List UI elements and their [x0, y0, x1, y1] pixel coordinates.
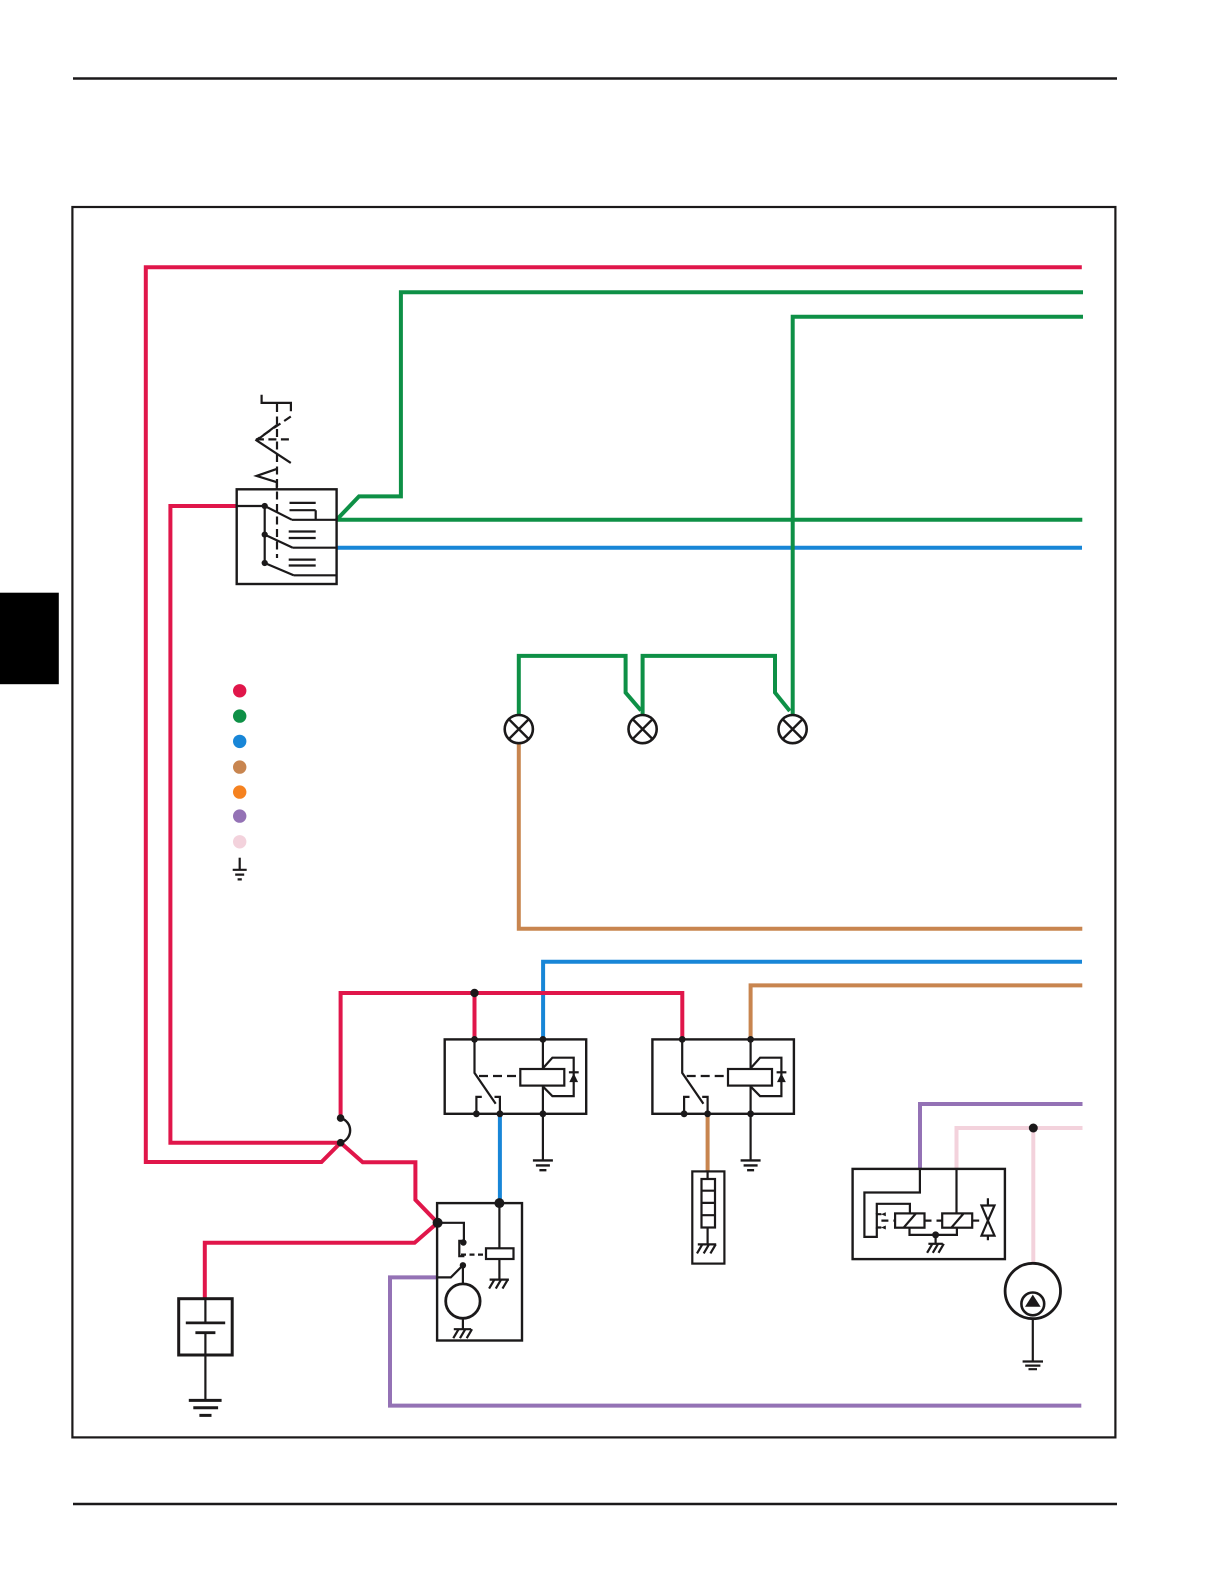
legend: green wire dot: [233, 709, 246, 722]
wire: blue fuel-solenoid feed from right edge to relay K1 coil: [543, 962, 1082, 1040]
ground: fuel pump: [1023, 1319, 1043, 1370]
fusible link F1: [692, 1171, 724, 1263]
legend: tan wire dot: [233, 760, 246, 773]
legend: red wire dot: [233, 684, 246, 697]
wire: green second top bus to lamp L3: [793, 317, 1083, 716]
connector arc between battery bus junctions: [341, 1118, 351, 1143]
ground: relay K1 coil: [533, 1114, 553, 1170]
wire: pink valve feed from right edge: [957, 1128, 1083, 1169]
wire: tan relay K2 output to fusible link: [706, 1114, 710, 1172]
relay K2 (fuel/PTO relay): [652, 1036, 794, 1117]
wire: red battery cable: [205, 1223, 438, 1299]
wire: green ignition output riser to top bus: [337, 292, 1083, 520]
wire: pink fuel pump feed: [1031, 1128, 1035, 1263]
junction dot: pink fuel pump tap: [1029, 1124, 1038, 1133]
fuel shutoff solenoid valve Y1: [853, 1169, 1005, 1259]
wire: blue ignition ACC output to right edge: [337, 546, 1082, 550]
junction dot: arc bottom: [337, 1139, 345, 1147]
starter motor assembly M1: [437, 1203, 522, 1340]
wire: red connector to starter solenoid stud: [341, 1143, 438, 1223]
wire: purple starter switch to right edge: [390, 1277, 1081, 1405]
legend: pink wire dot: [233, 835, 246, 848]
junction dot: starter battery stud: [433, 1218, 443, 1228]
wire: tan from right edge to relay K2 coil: [751, 985, 1083, 1039]
ground: relay K2 coil: [741, 1114, 761, 1170]
junction dot: starter solenoid blue input: [494, 1198, 504, 1208]
wire: red ignition switch feed: [170, 506, 340, 1143]
ignition key switch S1: [237, 395, 337, 584]
battery BT1: [179, 1299, 233, 1355]
legend: blue wire dot: [233, 735, 246, 748]
lamp L3: [779, 715, 807, 743]
lamp L1: [505, 715, 533, 743]
wire: blue relay K1 output to starter solenoid: [498, 1114, 502, 1203]
legend: ground symbol: [233, 858, 247, 880]
junction dot: red bus to relay K1: [470, 989, 478, 997]
wire: green lamp bus L1 to L2: [519, 656, 641, 715]
legend: purple wire dot: [233, 809, 246, 822]
wire: red unswitched battery feed top bus: [146, 267, 1082, 1162]
ground: battery negative: [189, 1355, 222, 1415]
relay K1 (starter relay): [445, 1036, 587, 1117]
lamp L2: [629, 715, 657, 743]
junction dot: arc top: [337, 1114, 345, 1122]
wire: red branch to relay K1: [473, 993, 477, 1039]
fuel pump P1: [1005, 1263, 1060, 1318]
wire: purple valve feed from right edge: [920, 1104, 1083, 1169]
legend: orange wire dot: [233, 785, 246, 798]
wire: green lamp bus L2 to L3: [643, 656, 790, 715]
wire: tan lamp L1 return to right edge: [519, 743, 1083, 929]
wire: green ignition run output to right edge: [337, 518, 1083, 522]
wire: red relay supply bus: [341, 993, 683, 1118]
